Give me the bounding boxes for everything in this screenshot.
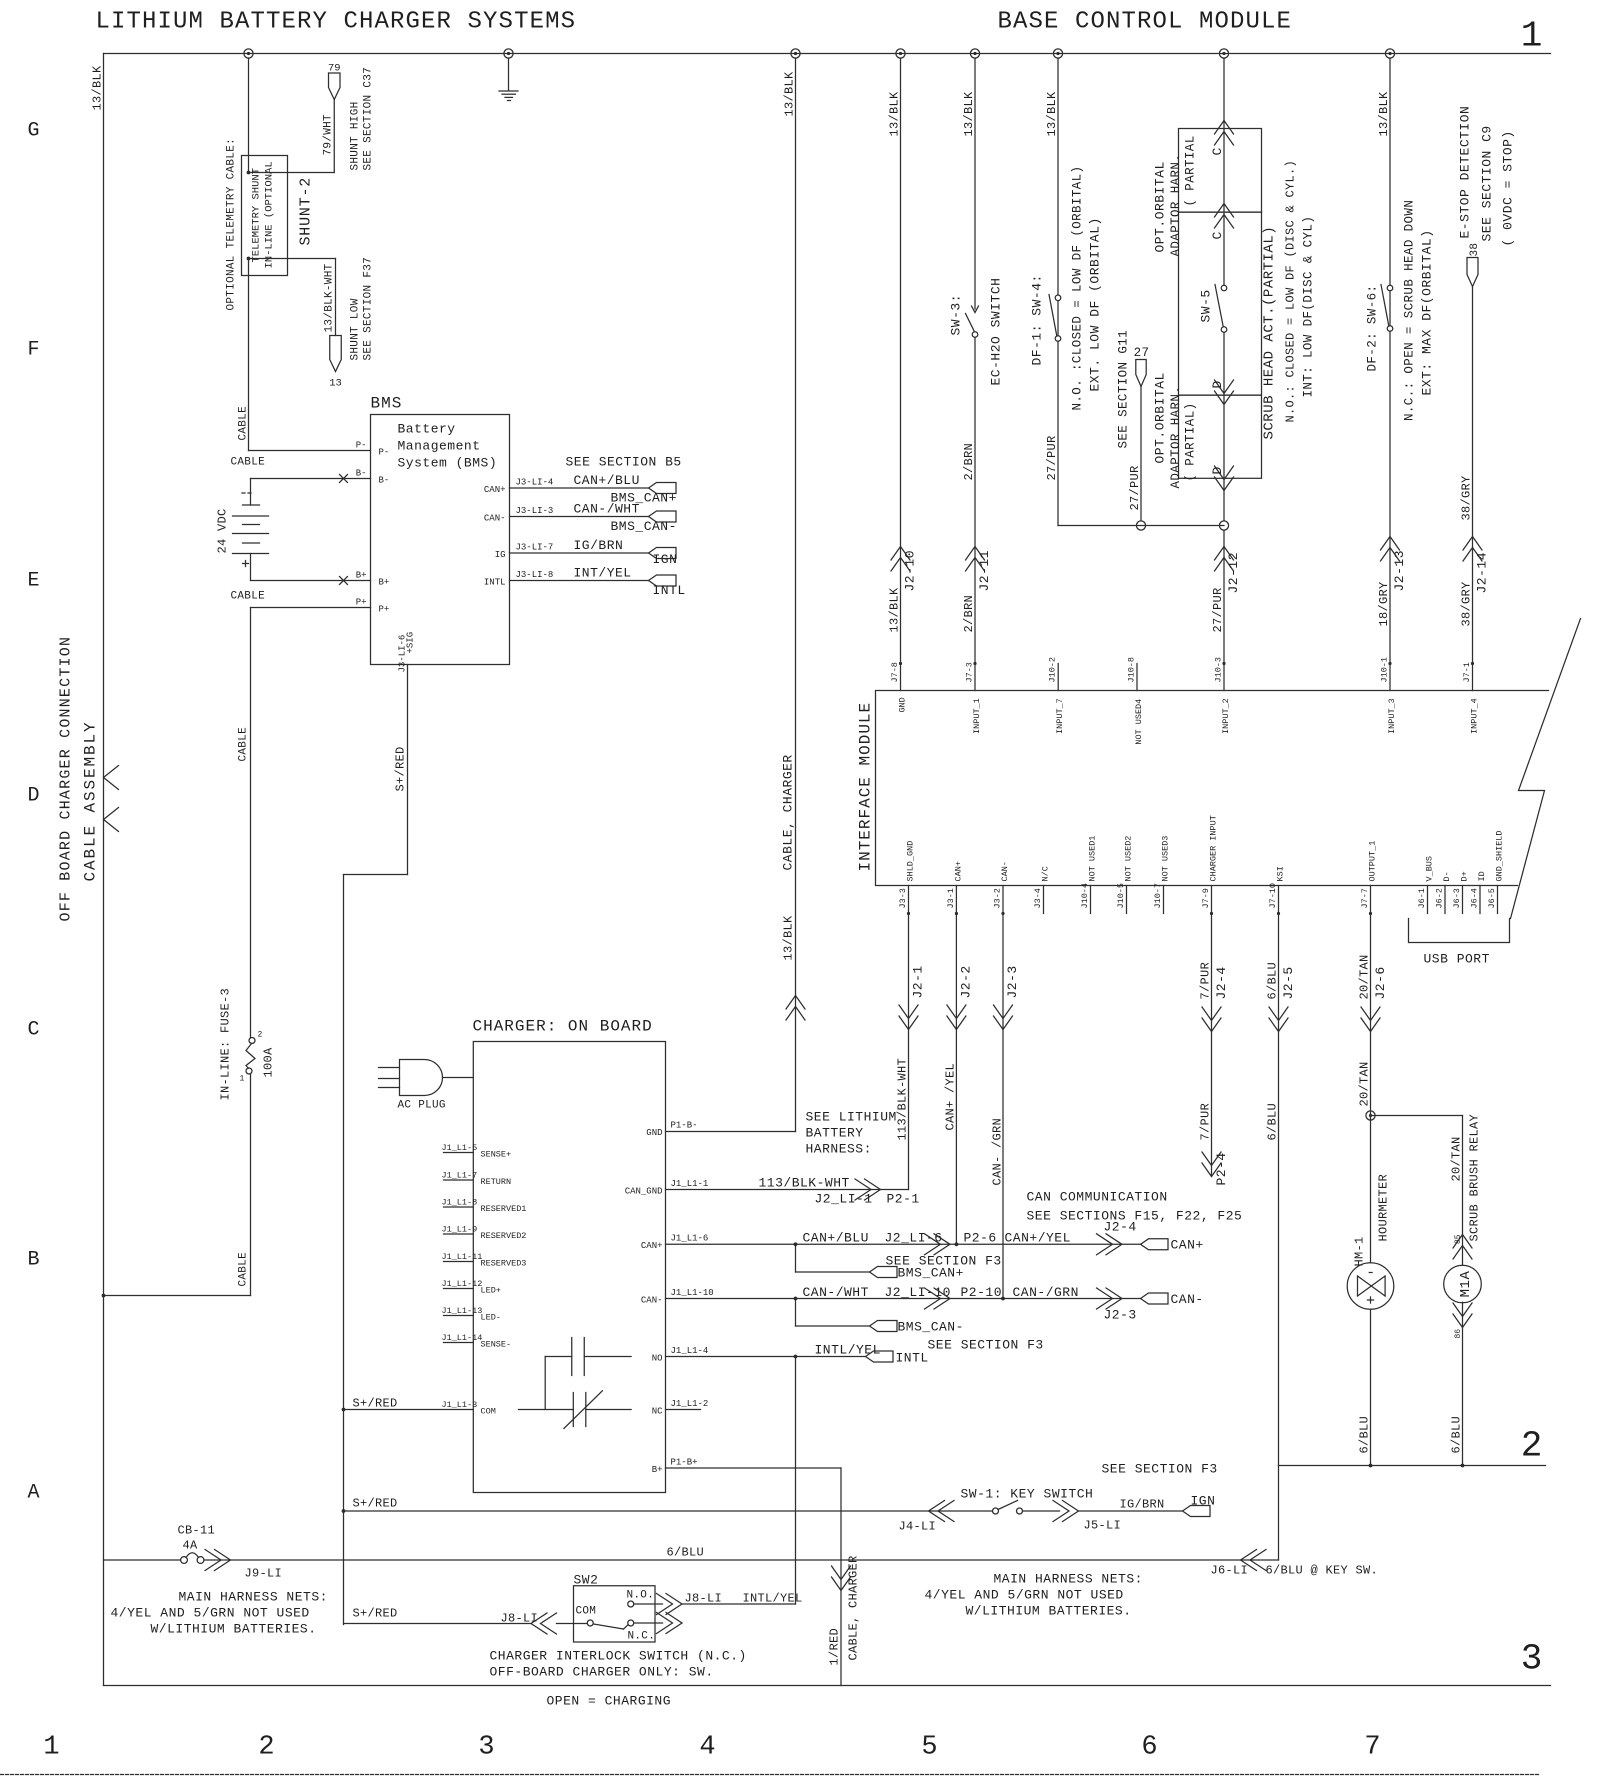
connector chevron J2-1 <box>899 1005 918 1030</box>
wire 13/BLK col900 <box>900 58 902 664</box>
label SEE SECTION F3 can- <box>928 1338 1044 1353</box>
label 13 <box>329 378 342 390</box>
svg-text:J3-4: J3-4 <box>1033 888 1043 908</box>
svg-text:CB-11: CB-11 <box>178 1524 216 1538</box>
svg-text:79/WHT: 79/WHT <box>323 114 335 156</box>
svg-text:J1_L1-3: J1_L1-3 <box>442 1400 478 1410</box>
label EXT: MAX DF(ORBITAL) <box>1420 229 1435 395</box>
charger pin J1_L1-3 COM wire S+/RED <box>344 1400 496 1417</box>
label MAIN HARNESS NETS: right <box>994 1572 1143 1587</box>
pin dot J7-1 <box>1471 662 1474 665</box>
pin dot J7-3 <box>973 662 976 665</box>
svg-text:J6-2: J6-2 <box>1435 888 1445 908</box>
connector chevron J6-LI <box>1241 1550 1267 1571</box>
wire 6/BLU col1278 <box>1278 914 1280 1466</box>
label CHARGER: ON BOARD <box>473 1018 653 1036</box>
svg-text:13/BLK: 13/BLK <box>91 65 105 111</box>
module bottom pin J3-1 CAN+ <box>946 861 964 915</box>
svg-text:D+: D+ <box>1460 871 1470 881</box>
label J2-1 <box>911 965 926 998</box>
svg-text:J2-5: J2-5 <box>1281 966 1296 999</box>
svg-text:J2-3: J2-3 <box>1104 1308 1137 1323</box>
interface module box <box>876 691 1549 886</box>
svg-text:P1-B-: P1-B- <box>671 1121 698 1131</box>
svg-text:6/BLU: 6/BLU <box>1450 1416 1464 1454</box>
battery minus marks <box>242 492 251 494</box>
hourmeter minus mark <box>1369 1272 1372 1274</box>
svg-text:INTL: INTL <box>653 583 686 598</box>
svg-text:B+: B+ <box>379 578 390 588</box>
label CABLE, CHARGER riser <box>781 754 796 870</box>
svg-text:INTERFACE MODULE: INTERFACE MODULE <box>857 702 875 872</box>
svg-text:IG: IG <box>495 550 506 560</box>
svg-text:CAN+/YEL: CAN+/YEL <box>1005 1231 1071 1246</box>
BMS pin B+ labels <box>356 571 390 588</box>
connector chevron J2-3 col <box>994 1005 1013 1030</box>
wire left border 13/BLK <box>103 54 105 1686</box>
svg-text:13/BLK: 13/BLK <box>1045 91 1059 137</box>
charger internal NC contact <box>519 1393 632 1427</box>
svg-text:INPUT_2: INPUT_2 <box>1221 698 1231 734</box>
label IG/BRN <box>1120 1498 1165 1512</box>
circuit breaker CB-11 4A <box>181 1553 204 1564</box>
connector chevron D middle <box>1215 380 1234 405</box>
svg-text:6/BLU @ KEY SW.: 6/BLU @ KEY SW. <box>1266 1564 1379 1578</box>
splice X on B+ wire <box>340 577 348 585</box>
label HM-1 <box>1353 1236 1367 1266</box>
svg-text:J3-1: J3-1 <box>946 888 956 908</box>
svg-text:J3-LI-4: J3-LI-4 <box>516 478 554 488</box>
grid row label A <box>27 1482 39 1505</box>
wire top 13/BLK power bus <box>104 53 1551 55</box>
switch SW-6 <box>1381 285 1393 332</box>
label BMS_CAN+ <box>611 491 677 506</box>
svg-text:COM: COM <box>576 1606 597 1618</box>
module bottom pin J7-9 CHARGER INPUT <box>1201 815 1219 915</box>
label P2-6 <box>964 1231 997 1246</box>
svg-text:2/BRN: 2/BRN <box>962 595 976 633</box>
svg-text:SHUNT-2: SHUNT-2 <box>298 177 315 246</box>
svg-text:CAN-: CAN- <box>484 514 506 524</box>
label 38 <box>1469 243 1481 257</box>
label SW-5 <box>1199 289 1214 322</box>
wire NO to INTL riser <box>682 1603 796 1605</box>
svg-text:CAN- /GRN: CAN- /GRN <box>991 1118 1005 1186</box>
pin dot J10-3 <box>1222 662 1225 665</box>
label J2-3 col <box>1005 965 1020 998</box>
connector chevron 86 <box>1453 1303 1472 1328</box>
svg-text:OPT.ORBITAL: OPT.ORBITAL <box>1153 372 1168 463</box>
svg-text:NC: NC <box>652 1407 663 1417</box>
connector chevron J2-2 <box>947 1005 966 1030</box>
svg-text:3: 3 <box>1521 1639 1543 1680</box>
BMS pin P+ labels <box>356 598 390 615</box>
label Battery Management System (BMS) <box>398 422 498 471</box>
wire key switch to J5-LI <box>1023 1510 1060 1512</box>
svg-text:7/PUR: 7/PUR <box>1199 962 1213 1000</box>
wire 13/BLK col1057 <box>1057 58 1059 295</box>
label 27/PUR g11 <box>1128 465 1142 510</box>
node on top bus at x=1057.5 <box>1053 49 1062 58</box>
label CABLE shunt-to-P- <box>238 406 250 441</box>
svg-text:J2_LI-6: J2_LI-6 <box>885 1231 943 1246</box>
grid row label F <box>27 339 39 362</box>
cable assembly fork upper on left border <box>104 766 119 790</box>
grid column label 1 <box>43 1733 59 1763</box>
connector chevron J2-6 <box>1361 1007 1380 1032</box>
svg-text:20/TAN: 20/TAN <box>1358 954 1372 999</box>
charger pin J1_L1-12 LED+ <box>442 1279 501 1296</box>
svg-text:27/PUR: 27/PUR <box>1128 465 1142 510</box>
svg-text:BMS_CAN-: BMS_CAN- <box>898 1320 964 1335</box>
svg-text:27: 27 <box>1134 346 1150 360</box>
svg-text:INTL: INTL <box>896 1351 929 1366</box>
svg-text:7: 7 <box>1364 1733 1380 1763</box>
svg-text:1/RED: 1/RED <box>828 1628 842 1666</box>
terminal flag CAN- <box>1141 1293 1169 1304</box>
grid row label E <box>27 570 39 593</box>
svg-text:N.O. :CLOSED = LOW DF (ORBITAL: N.O. :CLOSED = LOW DF (ORBITAL) <box>1071 166 1085 411</box>
label ADAPTOR HARN. lower <box>1169 386 1183 489</box>
wire S+/RED to key switch <box>344 1510 993 1512</box>
label 6/BLU main <box>667 1546 705 1560</box>
node on top bus at x=974.5 <box>970 49 979 58</box>
label S+/RED COM wire <box>353 1397 398 1411</box>
svg-text:G: G <box>27 120 39 143</box>
svg-text:P2-1: P2-1 <box>887 1192 920 1207</box>
svg-text:INPUT_4: INPUT_4 <box>1470 698 1480 734</box>
module bottom pin J6-3 D+ <box>1452 871 1470 913</box>
svg-text:OPT.ORBITAL: OPT.ORBITAL <box>1153 161 1168 252</box>
svg-text:CHARGER INPUT: CHARGER INPUT <box>1209 815 1219 881</box>
label AC PLUG <box>398 1100 446 1112</box>
label C middle <box>1210 231 1225 239</box>
module bottom pin J7-7 OUTPUT_1 <box>1360 841 1378 915</box>
terminal flag INTL <box>649 575 677 586</box>
connector chevron J9-LI <box>205 1550 231 1571</box>
svg-text:LED-: LED- <box>481 1313 501 1323</box>
wire P+ cable down to fuse <box>250 608 252 1038</box>
svg-text:B: B <box>27 1249 39 1272</box>
svg-text:CABLE: CABLE <box>231 457 266 469</box>
label CAN+ /YEL col955 <box>944 1063 958 1131</box>
connector chevron J8-LI NO <box>657 1594 683 1615</box>
connector chevron J2_LI-1 <box>855 1179 881 1200</box>
svg-text:J6-5: J6-5 <box>1487 888 1497 908</box>
switch SW2 box <box>574 1586 656 1642</box>
svg-text:J2-11: J2-11 <box>977 550 992 592</box>
connector 27 terminal <box>1136 360 1146 387</box>
label SEE SECTION G11 <box>1117 330 1131 449</box>
svg-text:SEE SECTION G11: SEE SECTION G11 <box>1117 330 1131 449</box>
label CABLE ASSEMBLY <box>82 720 100 881</box>
svg-text:IGN: IGN <box>1191 1494 1216 1509</box>
label 18/GRY upper <box>1377 581 1391 626</box>
BMS CAN+ output wire <box>510 487 649 489</box>
svg-text:CAN-: CAN- <box>1000 861 1010 881</box>
module bottom pin J6-2 D- <box>1435 871 1453 913</box>
label SCRUB HEAD ACT.(PARTIAL) <box>1262 226 1278 440</box>
svg-text:B-: B- <box>356 469 367 479</box>
svg-text:CAN+/BLU: CAN+/BLU <box>574 473 640 488</box>
svg-text:13: 13 <box>329 378 342 390</box>
charger pin J1_L1-13 LED- <box>442 1306 501 1323</box>
svg-text:C: C <box>1210 231 1225 239</box>
label 13/BLK-WHT <box>324 263 336 332</box>
module bottom pin J6-5 GND_SHIELD <box>1487 830 1505 913</box>
svg-text:J7-3: J7-3 <box>965 662 975 682</box>
node on top bus at x=248 <box>244 49 253 58</box>
svg-text:ADAPTOR HARN.: ADAPTOR HARN. <box>1169 154 1183 257</box>
svg-text:2: 2 <box>258 1031 263 1040</box>
charger pin CAN+ label <box>641 1234 708 1252</box>
svg-text:J2-14: J2-14 <box>1475 552 1490 594</box>
svg-text:J3-LI-3: J3-LI-3 <box>516 506 554 516</box>
svg-text:( PARTIAL): ( PARTIAL) <box>1184 402 1198 481</box>
BMS pin label INTL <box>484 578 506 588</box>
connector 79 terminal <box>329 73 341 100</box>
label J5-LI <box>1084 1519 1122 1533</box>
connector chevron J8-LI NC <box>657 1613 683 1634</box>
label 13/BLK col974 top <box>962 91 976 137</box>
label SHUNT LOW <box>350 298 362 360</box>
svg-text:J2-4: J2-4 <box>1214 966 1229 999</box>
svg-text:Battery: Battery <box>398 422 456 437</box>
wire B+ P1-B+ <box>666 1467 842 1469</box>
wire 13/BLK col1389 upper <box>1389 58 1391 285</box>
label 4A <box>183 1539 199 1553</box>
svg-text:MAIN HARNESS NETS:: MAIN HARNESS NETS: <box>179 1590 328 1605</box>
terminal flag BMS_CAN+ <box>649 483 677 494</box>
label OPT.ORBITAL lower <box>1153 372 1168 463</box>
svg-text:J1_L1-11: J1_L1-11 <box>442 1252 483 1262</box>
label CAN- /GRN col1002 <box>991 1118 1005 1186</box>
svg-text:System (BMS): System (BMS) <box>398 456 498 471</box>
svg-text:86: 86 <box>1454 1329 1463 1339</box>
svg-text:IN-LINE: FUSE-3: IN-LINE: FUSE-3 <box>219 988 233 1101</box>
label CHARGER INTERLOCK SWITCH (N.C.) <box>490 1649 747 1664</box>
SW2 COM contact <box>587 1620 593 1626</box>
wire 20/TAN col1370 <box>1370 914 1372 1263</box>
svg-text:J10-7: J10-7 <box>1153 883 1163 909</box>
label J8-LI left <box>501 1612 539 1626</box>
svg-text:13/BLK: 13/BLK <box>1377 91 1391 137</box>
module bottom pin J7-10 KSI <box>1268 866 1286 915</box>
label 6/BLU col1278 <box>1266 1103 1280 1141</box>
relay coil M1A <box>1444 1265 1482 1303</box>
pink margin line bottom <box>1 1774 1541 1776</box>
wire shunt high to connector 79 <box>251 100 335 173</box>
svg-text:J1_L1-8: J1_L1-8 <box>442 1198 478 1208</box>
svg-text:SENSE+: SENSE+ <box>481 1150 512 1160</box>
svg-text:J3-2: J3-2 <box>993 888 1003 908</box>
svg-text:ADAPTOR HARN.: ADAPTOR HARN. <box>1169 386 1183 489</box>
charger pin J1_L1-9 RESERVED2 <box>442 1225 527 1242</box>
label INTL/YEL no <box>815 1343 881 1358</box>
svg-text:J7-8: J7-8 <box>890 662 900 682</box>
svg-text:W/LITHIUM BATTERIES.: W/LITHIUM BATTERIES. <box>151 1622 317 1637</box>
connector chevron 85 <box>1453 1235 1472 1260</box>
label J2-4 can <box>1104 1220 1137 1235</box>
svg-text:J1_L1-12: J1_L1-12 <box>442 1279 483 1289</box>
switch SW-1 key switch <box>993 1501 1023 1515</box>
svg-text:SENSE-: SENSE- <box>481 1340 512 1350</box>
wire 20/TAN branch to relay <box>1371 1115 1463 1117</box>
wire CAN-/GRN col1002 <box>1002 914 1004 1299</box>
wire P+ to BMS <box>251 607 371 609</box>
wire INTL/YEL NO <box>666 1356 866 1358</box>
label CAN+ flag <box>1171 1238 1204 1253</box>
label J3-LI-4 <box>516 478 554 488</box>
label 13/BLK col900 <box>888 587 902 633</box>
label BMS_CAN+ <box>898 1266 964 1281</box>
label S+/RED sw2 row <box>353 1607 398 1621</box>
svg-text:J7-7: J7-7 <box>1360 888 1370 908</box>
switch SW-3 fixed contact arrow <box>972 306 979 313</box>
svg-text:13/BLK: 13/BLK <box>888 587 902 633</box>
svg-text:INT/YEL: INT/YEL <box>574 566 632 581</box>
label 100A <box>262 1047 276 1078</box>
svg-text:4/YEL AND 5/GRN NOT USED: 4/YEL AND 5/GRN NOT USED <box>925 1588 1124 1603</box>
label J2-6 <box>1373 966 1388 999</box>
orbital adaptor harness box middle <box>1179 212 1262 395</box>
wire IG/BRN to IGN flag <box>1079 1510 1183 1512</box>
wire border to CB-11 <box>104 1559 181 1561</box>
svg-text:OUTPUT_1: OUTPUT_1 <box>1368 841 1378 882</box>
svg-text:SHUNT LOW: SHUNT LOW <box>350 298 362 360</box>
svg-text:27/PUR: 27/PUR <box>1211 587 1225 632</box>
splice X on B- wire <box>340 475 348 483</box>
wire B- battery to BMS <box>251 478 371 480</box>
svg-text:OPTIONAL TELEMETRY CABLE:: OPTIONAL TELEMETRY CABLE: <box>226 138 238 311</box>
connector chevron C upper <box>1215 121 1234 146</box>
ground symbol <box>499 58 518 101</box>
svg-text:CAN-/WHT: CAN-/WHT <box>803 1285 869 1300</box>
svg-text:18/GRY: 18/GRY <box>1377 581 1391 626</box>
svg-text:CAN+: CAN+ <box>1171 1238 1204 1253</box>
svg-text:1: 1 <box>43 1733 59 1763</box>
junction dot hourmeter bus <box>1369 1464 1373 1468</box>
svg-text:J2_LI-1: J2_LI-1 <box>815 1192 873 1207</box>
svg-text:6/BLU: 6/BLU <box>1266 962 1280 1000</box>
svg-text:SEE SECTION F3: SEE SECTION F3 <box>928 1338 1044 1353</box>
junction dot CAN- J2-3 <box>1001 1297 1005 1301</box>
wire 113/BLK-WHT CAN_GND <box>666 1189 909 1191</box>
label ( PARTIAL upper <box>1184 135 1198 206</box>
label TELEMETRY SHUNT <box>251 168 263 263</box>
svg-text:J5-LI: J5-LI <box>1084 1519 1122 1533</box>
wire S+/RED riser <box>342 875 346 1625</box>
svg-text:INPUT_1: INPUT_1 <box>972 698 982 734</box>
label 13/BLK col1057 top <box>1045 91 1059 137</box>
label IGN <box>653 552 678 567</box>
switch SW-4 <box>1049 295 1061 342</box>
label OFF-BOARD CHARGER ONLY: SW. <box>490 1665 714 1680</box>
label J2-4 col <box>1214 966 1229 999</box>
svg-text:INPUT_7: INPUT_7 <box>1055 698 1065 734</box>
svg-text:D: D <box>1210 380 1225 388</box>
svg-text:24 VDC: 24 VDC <box>216 508 230 553</box>
svg-text:NOT USED3: NOT USED3 <box>1161 836 1171 882</box>
svg-text:J4-LI: J4-LI <box>899 1520 937 1534</box>
svg-text:SCRUB HEAD ACT.(PARTIAL): SCRUB HEAD ACT.(PARTIAL) <box>1262 226 1278 440</box>
label J8-LI right <box>685 1592 723 1606</box>
svg-text:SCRUB BRUSH RELAY: SCRUB BRUSH RELAY <box>1468 1114 1482 1242</box>
label J2-3 can <box>1104 1308 1137 1323</box>
label INT/YEL <box>574 566 632 581</box>
svg-text:SEE SECTION C37: SEE SECTION C37 <box>363 67 375 171</box>
svg-text:EC-H2O SWITCH: EC-H2O SWITCH <box>989 278 1004 386</box>
label CAN-/WHT <box>574 502 640 517</box>
svg-text:J2-3: J2-3 <box>1005 965 1020 998</box>
svg-text:M1A: M1A <box>1458 1271 1474 1298</box>
SW2 NO contact <box>628 1601 634 1607</box>
svg-text:J7-9: J7-9 <box>1201 888 1211 908</box>
label J2-10 <box>903 550 918 592</box>
connector ring 27/PUR scrub <box>1219 521 1228 530</box>
svg-text:A: A <box>27 1482 39 1505</box>
svg-text:113/BLK-WHT: 113/BLK-WHT <box>896 1058 910 1141</box>
svg-text:CAN_GND: CAN_GND <box>625 1187 663 1197</box>
svg-text:SEE SECTION C9: SEE SECTION C9 <box>1480 125 1495 241</box>
svg-text:4/YEL AND 5/GRN NOT USED: 4/YEL AND 5/GRN NOT USED <box>111 1606 310 1621</box>
label N.O.: CLOSED = LOW DF (DISC & CYL.) <box>1284 160 1298 423</box>
label SEE SECTION B5 <box>566 455 682 470</box>
terminal flag IGN key <box>1183 1506 1211 1517</box>
svg-text:J7-1: J7-1 <box>1462 662 1472 682</box>
svg-text:P+: P+ <box>379 605 390 615</box>
svg-text:CABLE: CABLE <box>238 1252 250 1287</box>
connector chevron J2-11 <box>966 547 985 572</box>
label CAN+/BLU <box>803 1231 869 1246</box>
label M1A <box>1458 1271 1474 1298</box>
terminal flag BMS_CAN+ <box>870 1267 898 1278</box>
label 6/BLU @ KEY SW. <box>1266 1564 1379 1578</box>
label SHUNT HIGH <box>350 101 362 170</box>
label OPT.ORBITAL upper <box>1153 161 1168 252</box>
svg-text:P2-6: P2-6 <box>964 1231 997 1246</box>
svg-text:2: 2 <box>258 1733 274 1763</box>
svg-text:BATTERY: BATTERY <box>806 1126 864 1141</box>
svg-text:J10-5: J10-5 <box>1116 883 1126 909</box>
svg-text:CABLE: CABLE <box>238 727 250 762</box>
connector chevron J2-13 <box>1381 537 1400 562</box>
AC plug symbol <box>379 1060 443 1096</box>
SW2 NC contact <box>628 1620 634 1626</box>
svg-text:SEE SECTION F3: SEE SECTION F3 <box>1102 1462 1218 1477</box>
connector chevron J2-12 <box>1215 547 1234 572</box>
svg-text:P2-10: P2-10 <box>961 1285 1003 1300</box>
label INTL flag charger <box>896 1351 929 1366</box>
grid column label 6 <box>1141 1733 1157 1763</box>
label 20/TAN col1370 top <box>1358 954 1372 999</box>
svg-text:INT: LOW DF(DISC & CYL): INT: LOW DF(DISC & CYL) <box>1302 216 1316 398</box>
connector chevron J2-14 <box>1463 537 1482 562</box>
svg-text:S+/RED: S+/RED <box>353 1497 398 1511</box>
svg-text:J10-8: J10-8 <box>1127 657 1137 683</box>
grid row label C <box>27 1019 39 1042</box>
label CB-11 <box>178 1524 216 1538</box>
svg-text:J2-10: J2-10 <box>903 550 918 592</box>
wire 1/RED cable charger down <box>840 1468 842 1686</box>
label SEE SECTION F37 <box>363 257 375 361</box>
connector chevron J2-3 <box>1097 1288 1123 1309</box>
connector chevron on charger riser <box>786 996 805 1021</box>
svg-text:DF-1: SW-4:: DF-1: SW-4: <box>1030 274 1045 365</box>
svg-text:SEE SECTIONS F15, F22, F25: SEE SECTIONS F15, F22, F25 <box>1027 1209 1243 1224</box>
svg-text:J1_L1-9: J1_L1-9 <box>442 1225 478 1235</box>
label EXT. LOW DF (ORBITAL) <box>1088 217 1103 391</box>
